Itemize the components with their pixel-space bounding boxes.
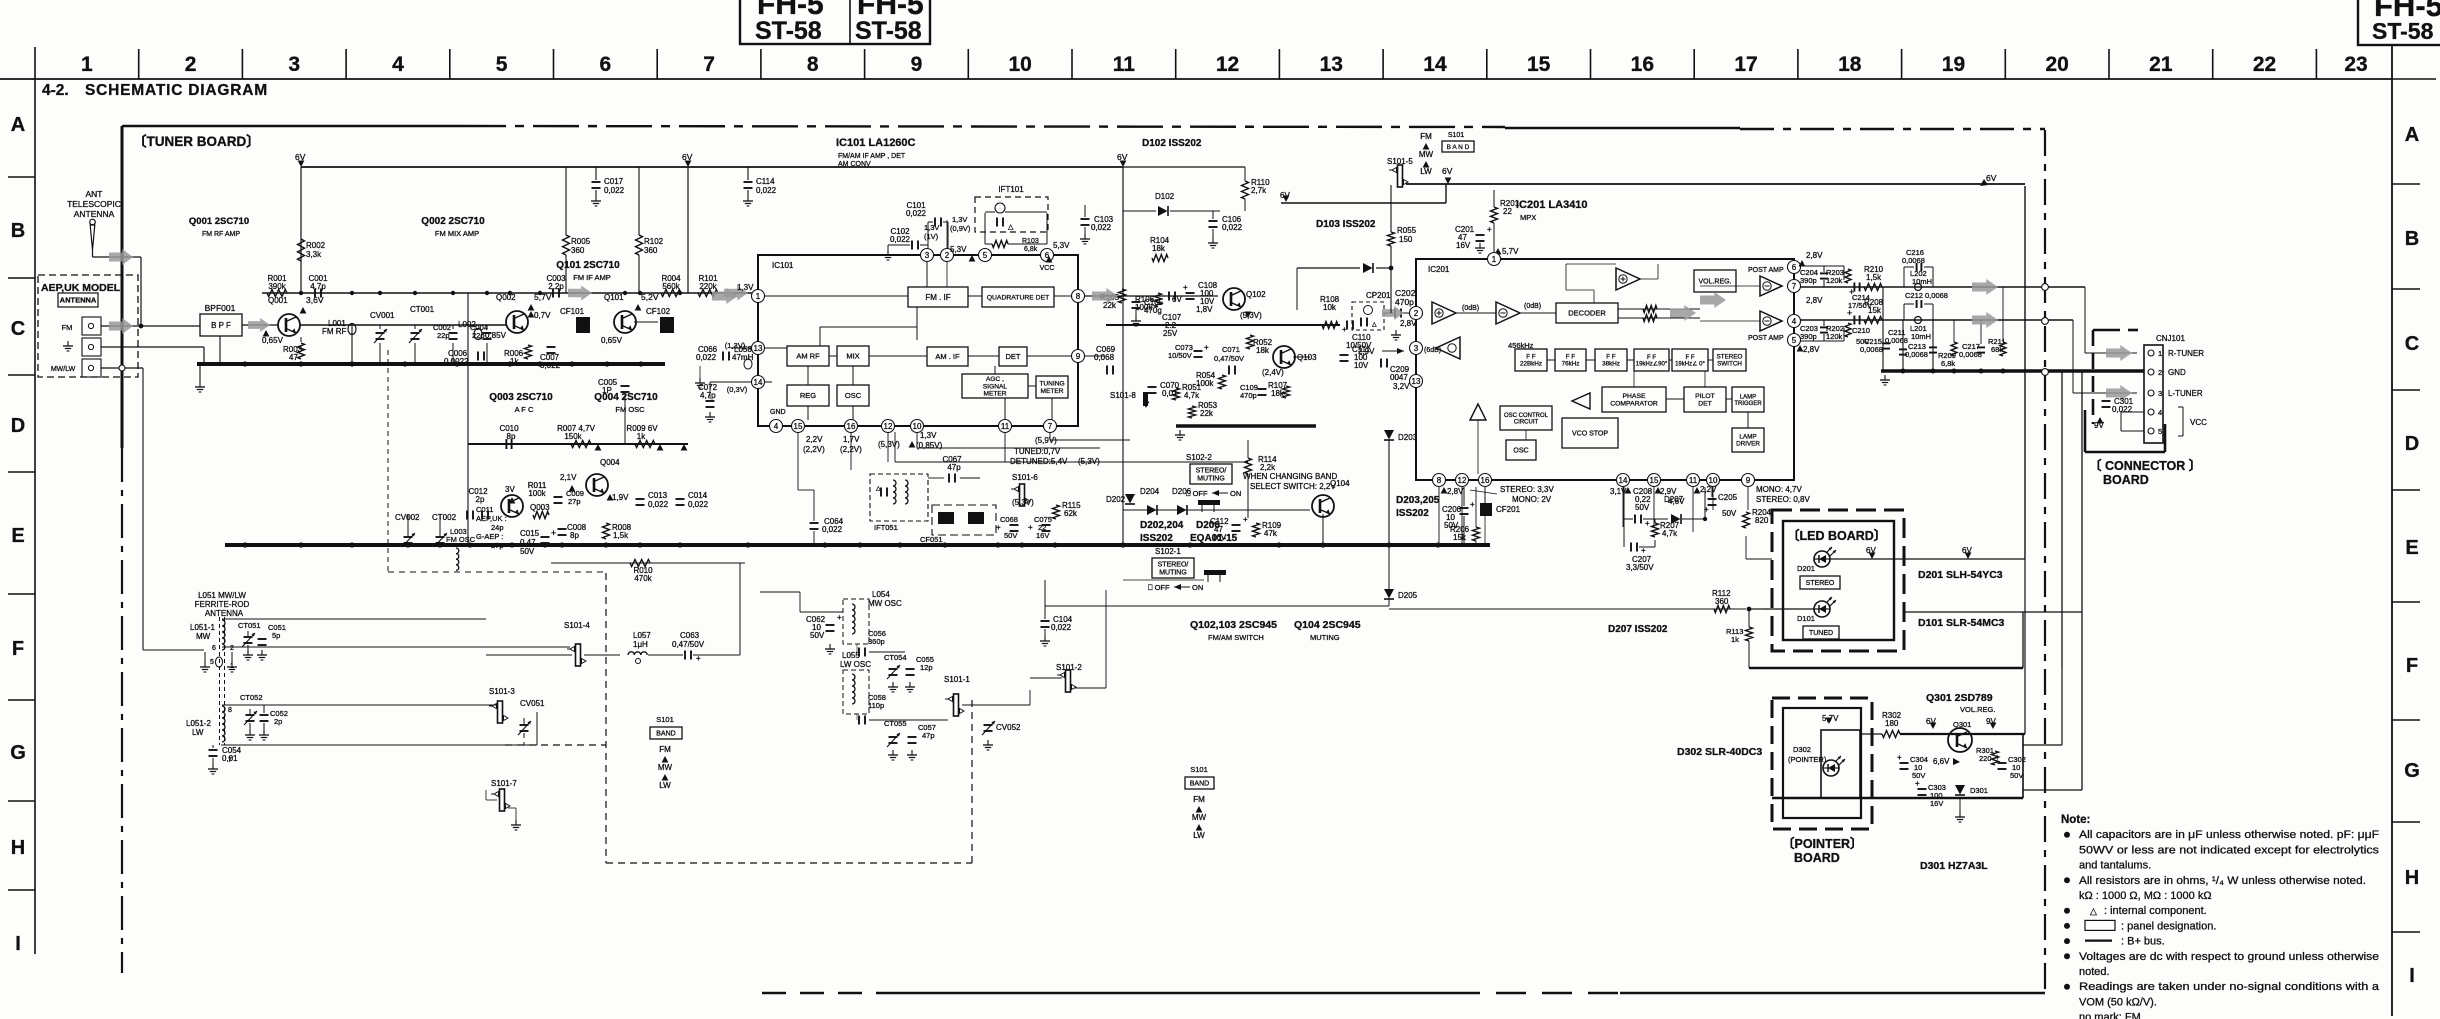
wire stereo muting row2 [1123, 579, 1204, 581]
arrow out left-tuner [1972, 312, 1998, 328]
svg-text:+: + [1028, 523, 1033, 532]
svg-text:BOARD: BOARD [2103, 473, 2149, 487]
svg-text:C068: C068 [1000, 515, 1018, 524]
svg-text:SIGNAL: SIGNAL [983, 383, 1008, 390]
svg-text:ON: ON [1230, 489, 1241, 498]
svg-text:0,65V: 0,65V [262, 336, 284, 345]
LED board outer dashed box [1772, 510, 1904, 651]
svg-text:0,022: 0,022 [604, 186, 625, 195]
svg-text:(0,9V): (0,9V) [950, 224, 971, 233]
svg-text:+: + [1704, 505, 1709, 514]
connector pin 4 [2148, 409, 2154, 415]
svg-text:10V: 10V [1354, 361, 1369, 370]
svg-text:ISS202: ISS202 [1140, 533, 1173, 544]
svg-text:7: 7 [1048, 422, 1053, 431]
svg-text:10: 10 [1709, 476, 1718, 485]
IC101 pin 13 [752, 342, 765, 355]
STEREO panel box [1800, 576, 1840, 589]
svg-text:DET: DET [1698, 401, 1712, 408]
block PHASE COMPARATOR [1602, 387, 1666, 412]
svg-text:2p: 2p [476, 495, 485, 504]
svg-text:3: 3 [925, 251, 930, 260]
svg-text:BPF001: BPF001 [205, 303, 236, 313]
svg-text:0,0068: 0,0068 [1860, 345, 1883, 354]
svg-text:2,2V: 2,2V [1700, 485, 1717, 494]
svg-text:4: 4 [1792, 317, 1797, 326]
svg-text:(5,3V): (5,3V) [878, 440, 900, 449]
svg-text:0,022: 0,022 [756, 186, 777, 195]
connector pin 2 [2148, 369, 2154, 375]
IC201 pin 3 [1410, 342, 1423, 355]
svg-text:(5,3V): (5,3V) [1240, 311, 1262, 320]
svg-text:FM: FM [1193, 795, 1205, 804]
svg-text:SELECT SWITCH: 2,2V: SELECT SWITCH: 2,2V [1250, 482, 1336, 491]
svg-text:AM . IF: AM . IF [935, 352, 960, 361]
svg-text:SWITCH: SWITCH [1717, 361, 1742, 368]
svg-text:220: 220 [1979, 754, 1992, 763]
svg-text:D207: D207 [1664, 495, 1684, 504]
svg-text:IC201: IC201 [1428, 265, 1450, 274]
svg-text:MW: MW [658, 763, 673, 772]
svg-text:9: 9 [1746, 476, 1751, 485]
svg-text:11: 11 [1001, 422, 1010, 431]
zener D301 [1955, 785, 1965, 795]
R-tuner signal line y287 [1800, 286, 2085, 288]
svg-text:+: + [1995, 753, 2000, 762]
block MIX [837, 346, 869, 366]
svg-text:D101: D101 [1797, 614, 1815, 623]
opamp pilot plus [1616, 268, 1640, 290]
capacitor C001 [314, 289, 316, 298]
svg-text:22k: 22k [1103, 301, 1117, 310]
svg-text:1,5k: 1,5k [1866, 273, 1882, 282]
svg-text:A: A [2405, 124, 2419, 146]
junction dots front end [242, 361, 247, 366]
wire mid vertical x1856 links [1855, 133, 1857, 190]
svg-text:5,3V: 5,3V [1053, 241, 1070, 250]
block VCO STOP [1562, 418, 1618, 448]
svg-text:0047: 0047 [1390, 373, 1408, 382]
IC101 pin 1 [752, 290, 765, 303]
svg-text:AM RF: AM RF [796, 352, 820, 361]
svg-text:8: 8 [807, 53, 819, 76]
IC201 inner connect wires [1666, 398, 1684, 400]
svg-text:R055: R055 [1397, 226, 1417, 235]
wire MW row to S101-4 [222, 646, 570, 648]
svg-text:4,7k: 4,7k [1662, 529, 1678, 538]
opamp input plus [1432, 302, 1456, 324]
svg-text:360: 360 [1715, 597, 1729, 606]
right row ticks [2392, 183, 2420, 185]
wire Q101 to IC101 pin1 [634, 321, 658, 323]
transistor Q102 [1223, 288, 1245, 310]
dashed wire CV051 to band box [505, 744, 606, 746]
svg-text:C210: C210 [1852, 326, 1870, 335]
svg-text:MONO: 2V: MONO: 2V [1512, 495, 1552, 504]
svg-text:FM RF: FM RF [322, 327, 347, 336]
svg-text:12: 12 [884, 422, 893, 431]
IC101 inner wires [764, 295, 908, 297]
svg-text:3: 3 [2158, 389, 2162, 398]
svg-text:G: G [10, 742, 26, 764]
svg-text:: B+ bus.: : B+ bus. [2121, 936, 2165, 948]
svg-text:16: 16 [1631, 53, 1654, 76]
wire Q102 emitter to 5.3V line [1243, 307, 1262, 325]
IC101 pin 5 [979, 249, 992, 262]
ANTENNA small panel box [58, 293, 98, 307]
svg-text:C: C [2405, 333, 2419, 355]
svg-text:(0dB): (0dB) [1524, 303, 1541, 310]
svg-text:Q301: Q301 [1953, 720, 1971, 729]
svg-text:8: 8 [1076, 292, 1081, 301]
svg-text:CP201: CP201 [1366, 291, 1391, 300]
svg-text:All resistors are in ohms, ¹/₄: All resistors are in ohms, ¹/₄ W unless … [2079, 875, 2366, 887]
svg-text:S102-2: S102-2 [1186, 453, 1212, 462]
svg-text:100k: 100k [528, 489, 546, 498]
svg-text:G: G [2404, 760, 2420, 782]
block FM IF [908, 287, 968, 307]
wire row y444 4.7V [468, 443, 688, 445]
wire led board lower bus [1749, 667, 2023, 669]
svg-text:6V: 6V [1442, 166, 1453, 176]
svg-text:CT051: CT051 [238, 621, 261, 630]
svg-text:11: 11 [1689, 476, 1698, 485]
svg-text:(0,85V): (0,85V) [916, 441, 943, 450]
svg-text:+: + [1243, 515, 1248, 524]
svg-text:14: 14 [754, 378, 763, 387]
svg-text:50V: 50V [520, 547, 535, 556]
svg-text:VOL.REG.: VOL.REG. [1960, 705, 1995, 714]
svg-text:R-TUNER: R-TUNER [2168, 349, 2204, 358]
vertical x1903 to gnd bus [1902, 320, 1904, 371]
svg-text:4: 4 [774, 422, 779, 431]
svg-text:1: 1 [81, 53, 93, 76]
wire x1123 vertical [1122, 293, 1124, 545]
svg-text:4,7k: 4,7k [1184, 391, 1200, 400]
arrows to post amp [1700, 292, 1726, 308]
svg-text:(POINTER): (POINTER) [1788, 755, 1827, 764]
svg-text:R102: R102 [644, 237, 664, 246]
svg-text:D101 SLR-54MC3: D101 SLR-54MC3 [1918, 617, 2005, 629]
wires IC201 pins down to bus [1438, 487, 1440, 545]
svg-text:B: B [2405, 228, 2419, 250]
svg-text:STEREO: STEREO [1806, 580, 1835, 587]
IC101 pin 9 [1072, 350, 1085, 363]
svg-text:1,8V: 1,8V [1196, 305, 1213, 314]
svg-text:D301 HZ7A3L: D301 HZ7A3L [1920, 860, 1988, 872]
svg-text:E: E [11, 525, 24, 547]
wire pin4 pin5 [2121, 411, 2144, 413]
svg-text:CF102: CF102 [646, 307, 671, 316]
svg-text:1k: 1k [1731, 635, 1739, 644]
svg-text:2,2k: 2,2k [1260, 463, 1276, 472]
svg-text:R005: R005 [571, 237, 591, 246]
svg-text:ON: ON [1192, 583, 1203, 592]
svg-text:〔POINTER〕: 〔POINTER〕 [1782, 836, 1863, 851]
svg-text:GND: GND [2168, 368, 2186, 377]
IC201 bottom pins [1433, 474, 1446, 487]
arrow after R101 [724, 286, 748, 301]
IC101 pin 8 [1072, 290, 1085, 303]
junction dots feed row [299, 291, 303, 295]
svg-text:D102 ISS202: D102 ISS202 [1142, 138, 1202, 149]
svg-text:19kHz∠90°: 19kHz∠90° [1636, 360, 1668, 367]
junction dots bottom bus [242, 542, 247, 547]
resistor R005 [563, 235, 570, 255]
svg-text:R002: R002 [306, 241, 326, 250]
svg-text:10k: 10k [1323, 303, 1337, 312]
ferrite rod core dashed [219, 617, 221, 745]
svg-text:Readings are taken under n: Readings are taken under no-signal condi… [2079, 981, 2380, 993]
wire to connector pin3 [2072, 320, 2074, 393]
svg-text:DETUNED:5,4V: DETUNED:5,4V [1010, 457, 1068, 466]
resistor R007 150k [571, 441, 591, 448]
svg-text:4-2.: 4-2. [42, 82, 69, 99]
svg-text:MUTING: MUTING [1310, 633, 1340, 642]
svg-text:0,0022: 0,0022 [444, 357, 469, 366]
svg-text:FM: FM [1420, 132, 1432, 141]
transistor Q301 [1948, 728, 1972, 752]
wire ground terminal [101, 346, 204, 348]
pointer board inner box [1783, 708, 1861, 818]
crossing junctions on border [2042, 284, 2049, 291]
svg-text:Q101 2SC710: Q101 2SC710 [556, 260, 620, 271]
svg-text:1P: 1P [602, 386, 612, 395]
svg-text:VOM (50 kΩ/V).: VOM (50 kΩ/V). [2079, 996, 2157, 1008]
svg-text:FM/AM SWITCH: FM/AM SWITCH [1208, 633, 1264, 642]
svg-text:CIRCUIT: CIRCUIT [1514, 419, 1539, 425]
svg-text:360: 360 [644, 246, 658, 255]
L-tuner signal line y320 [1800, 319, 2073, 321]
svg-text:MUTING: MUTING [1159, 569, 1187, 576]
svg-text:DECODER: DECODER [1568, 309, 1606, 318]
svg-text:D: D [2405, 433, 2419, 455]
tuner board right border dash-dot [2044, 130, 2046, 993]
block TUNING METER [1036, 376, 1068, 398]
arrow out right-tuner [1972, 279, 1998, 295]
svg-text:22BkHz: 22BkHz [1520, 361, 1542, 368]
wire D101 row from R112 [1749, 608, 1764, 610]
svg-text:CT054: CT054 [884, 653, 907, 662]
svg-text:2p: 2p [274, 717, 282, 726]
svg-text:CV052: CV052 [996, 723, 1021, 732]
wire vertical x468 from feed [467, 293, 469, 545]
wire antenna to board [93, 256, 142, 258]
svg-text:MPX: MPX [1520, 213, 1536, 222]
arrow after C003 [568, 286, 592, 301]
wire pointer to Q301 [1861, 733, 1882, 735]
svg-text:+: + [1204, 343, 1209, 352]
ground symbol below BPF [199, 382, 201, 387]
post amp bottom [1760, 311, 1782, 331]
svg-text:Q101: Q101 [604, 293, 624, 302]
tuner board outline [122, 125, 460, 128]
transistor Q004 oscillator [586, 474, 608, 496]
svg-text:2: 2 [1414, 309, 1419, 318]
svg-text:COMPARATOR: COMPARATOR [1610, 401, 1658, 408]
IC201 outline [1416, 259, 1794, 480]
wire LW row [222, 704, 497, 706]
connector pin 3 [2148, 390, 2154, 396]
svg-text:Q102,103 2SC945: Q102,103 2SC945 [1190, 619, 1277, 631]
svg-text:L051-2: L051-2 [186, 719, 211, 728]
svg-text:FM: FM [62, 323, 73, 332]
svg-text:L055: L055 [842, 651, 860, 660]
svg-text:: internal component.: : internal component. [2104, 905, 2207, 917]
svg-text:0,85V: 0,85V [485, 331, 507, 340]
resistor R010 470k [551, 562, 745, 564]
svg-text:2: 2 [2158, 368, 2162, 377]
svg-text:LW: LW [1193, 831, 1205, 840]
muting switch symbol [1198, 500, 1220, 505]
svg-text:D202: D202 [1106, 495, 1126, 504]
svg-text:MONO: 4,7V: MONO: 4,7V [1756, 485, 1802, 494]
svg-text:MW: MW [1419, 150, 1434, 159]
block REG [787, 385, 829, 406]
wire S101-4 to L057 [584, 654, 620, 656]
arrow into IC101 [712, 288, 738, 304]
svg-text:B A N D: B A N D [1447, 144, 1470, 151]
svg-text:470g: 470g [1144, 306, 1162, 315]
svg-text:AGC ,: AGC , [986, 376, 1004, 383]
svg-text:2,8V: 2,8V [1803, 345, 1820, 354]
svg-text:OSC: OSC [1513, 447, 1528, 454]
svg-text:GND: GND [770, 409, 786, 416]
block OSC CONTROL CIRCUIT [1500, 406, 1552, 430]
svg-text:390k: 390k [268, 282, 286, 291]
resistor R002 [298, 239, 305, 261]
block VOL REG [1694, 270, 1736, 292]
wire to connector pin1 [2084, 287, 2086, 353]
svg-text:390p: 390p [1800, 332, 1817, 341]
svg-text:WHEN CHANGING BAND: WHEN CHANGING BAND [1243, 472, 1337, 481]
wire 6V right corner down [2024, 186, 2026, 559]
svg-text:(1V): (1V) [924, 232, 939, 241]
svg-text:IC201 LA3410: IC201 LA3410 [1516, 199, 1588, 211]
svg-text:A: A [11, 114, 25, 136]
svg-text:CF201: CF201 [1496, 505, 1521, 514]
svg-text:(0,3V): (0,3V) [727, 385, 748, 394]
svg-text:6: 6 [600, 53, 612, 76]
svg-text:H: H [11, 837, 25, 859]
svg-text:470p: 470p [1240, 391, 1257, 400]
svg-text:Note:: Note: [2061, 814, 2090, 826]
svg-text:0,65V: 0,65V [601, 336, 623, 345]
svg-text:1,3V: 1,3V [737, 283, 754, 292]
transistor Q003 oscillator [501, 495, 523, 517]
svg-text:C205: C205 [1718, 493, 1738, 502]
svg-text:15: 15 [1650, 476, 1659, 485]
svg-text:I: I [2409, 965, 2415, 987]
wire 6V drop x688 [687, 167, 689, 293]
svg-text:1,3V: 1,3V [924, 223, 939, 232]
IC101 pin 14 [752, 376, 765, 389]
svg-text:METER: METER [983, 391, 1006, 398]
6V top bus [301, 166, 1123, 168]
svg-text:S101-7: S101-7 [491, 779, 517, 788]
resistor R101 [698, 290, 718, 297]
svg-text:470p: 470p [1395, 297, 1414, 307]
svg-text:no mark: FM: no mark: FM [2079, 1012, 2141, 1019]
tuner board bottom border [762, 992, 900, 994]
svg-text:E: E [2405, 537, 2418, 559]
svg-text:D302 SLR-40DC3: D302 SLR-40DC3 [1677, 746, 1762, 758]
svg-text:23: 23 [2344, 53, 2367, 76]
svg-text:VCC: VCC [1040, 265, 1055, 272]
svg-text:D201: D201 [1797, 564, 1815, 573]
wire led d101 left [1764, 608, 1814, 610]
VCC bracket [2178, 406, 2183, 408]
svg-text:ISS202: ISS202 [1396, 508, 1429, 519]
block OSC [837, 385, 869, 406]
svg-text:F F: F F [1647, 355, 1656, 361]
svg-text:AEP,UK :: AEP,UK : [476, 514, 507, 523]
svg-text:12: 12 [1458, 476, 1467, 485]
svg-text:S101: S101 [1190, 765, 1208, 774]
svg-text:820: 820 [1755, 516, 1769, 525]
svg-text:IC101: IC101 [772, 261, 794, 270]
main bus ground thick y364 [197, 362, 665, 366]
svg-text:12p: 12p [920, 663, 933, 672]
svg-text:0,47/50V: 0,47/50V [1214, 354, 1244, 363]
vertical x1883 to gnd bus [1882, 287, 1884, 371]
svg-text:0,022: 0,022 [2112, 405, 2133, 414]
pointer board bottom bus [1772, 797, 2023, 799]
svg-text:D206: D206 [1196, 520, 1220, 531]
left row ticks [8, 176, 35, 178]
svg-text:S101: S101 [656, 715, 674, 724]
svg-text:50V: 50V [810, 631, 825, 640]
band select dashed box [605, 573, 607, 863]
svg-text:19kHz∠ 0°: 19kHz∠ 0° [1675, 360, 1705, 367]
wire pin8 out [1084, 295, 1218, 297]
svg-text:0,022: 0,022 [688, 500, 709, 509]
connector pin 5 [2148, 428, 2154, 434]
wire MW/LW terminal [101, 367, 143, 369]
svg-text:180: 180 [1885, 719, 1899, 728]
svg-text:BOARD: BOARD [1794, 851, 1840, 865]
svg-text:D301: D301 [1970, 786, 1988, 795]
svg-text:2,8V: 2,8V [1806, 251, 1823, 260]
svg-text:STEREO: 0,8V: STEREO: 0,8V [1756, 495, 1810, 504]
extra verticals to bottom bus [859, 293, 861, 545]
svg-text:S101: S101 [1448, 132, 1464, 139]
svg-text:S101-8: S101-8 [1110, 391, 1136, 400]
svg-text:1,7V: 1,7V [843, 435, 860, 444]
svg-text:DET: DET [1006, 352, 1021, 361]
svg-text:METER: METER [1040, 388, 1063, 395]
svg-text:8: 8 [228, 707, 232, 714]
pointer board cell [1821, 730, 1860, 798]
wire Q104 emitter down [1322, 514, 1324, 545]
block DET [999, 347, 1027, 366]
svg-text:D205: D205 [1398, 591, 1418, 600]
svg-text:S101-3: S101-3 [489, 687, 515, 696]
triangle buffers IC201 [1572, 393, 1590, 409]
svg-text:360p: 360p [868, 637, 885, 646]
IC201 pin 2 [1410, 307, 1423, 320]
svg-text:1,3V: 1,3V [952, 215, 967, 224]
arrow antenna input [109, 249, 133, 265]
wire Q001 collector up [261, 293, 263, 325]
svg-text:15: 15 [1527, 53, 1551, 76]
svg-text:7: 7 [703, 53, 715, 76]
svg-text:6,8k: 6,8k [1024, 246, 1038, 253]
block AM RF [787, 346, 829, 366]
pointer board outer dashed box [1772, 698, 1872, 829]
resistor R102 [636, 235, 643, 255]
svg-text:STEREO/: STEREO/ [1158, 562, 1189, 569]
